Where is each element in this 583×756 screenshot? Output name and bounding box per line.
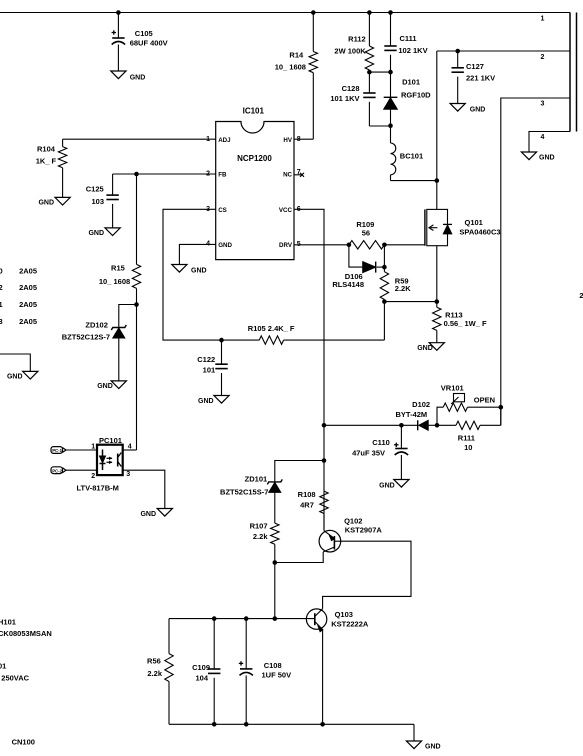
resistor R56 [147, 619, 173, 725]
svg-text:FB: FB [218, 172, 227, 179]
inductor BC101 [391, 126, 437, 181]
svg-text:VR101: VR101 [441, 384, 464, 393]
ground IC101 [172, 265, 207, 275]
wire gate [384, 244, 425, 246]
svg-text:10_ 1608: 10_ 1608 [99, 277, 130, 286]
svg-text:KST2907A: KST2907A [345, 526, 383, 535]
svg-text:C109: C109 [192, 663, 210, 672]
svg-text:GND: GND [198, 398, 214, 405]
IC101 pin name ADJ [218, 137, 231, 144]
junction R109 left [347, 243, 352, 248]
svg-text:3: 3 [541, 101, 545, 108]
svg-text:R105 2.4K_ F: R105 2.4K_ F [248, 324, 295, 333]
svg-text:ADJ: ADJ [218, 137, 231, 144]
svg-text:4R7: 4R7 [300, 500, 314, 509]
transformer pin 4 label [541, 134, 545, 141]
junction D101/BC101 [388, 123, 393, 128]
capacitor C128 [330, 72, 390, 126]
svg-text:GND: GND [140, 511, 156, 518]
svg-text:IC101: IC101 [243, 107, 265, 116]
variable resistor VR101 [437, 384, 501, 426]
svg-text:C111: C111 [400, 34, 417, 43]
svg-text:Q101: Q101 [465, 218, 483, 227]
svg-text:221 1KV: 221 1KV [466, 74, 495, 83]
junction C108 bottom [244, 722, 249, 727]
wire PC101 pin 4 [123, 449, 137, 451]
svg-text:47uF 35V: 47uF 35V [352, 449, 385, 458]
svg-text:Q102: Q102 [344, 517, 362, 526]
svg-text:R104: R104 [37, 145, 56, 154]
resistor R104 [36, 139, 67, 197]
svg-text:104: 104 [195, 674, 208, 683]
resistor R107 [250, 522, 279, 563]
diode D102 [396, 400, 437, 430]
IC101 pin name VCC [279, 207, 293, 214]
svg-text:ZD102: ZD102 [85, 320, 108, 329]
svg-text:C127: C127 [466, 62, 484, 71]
junction R15/ZD102 [134, 302, 139, 307]
svg-text:ZD101: ZD101 [245, 475, 268, 484]
net label row 2 [0, 283, 37, 292]
PC101 pin 4 number [128, 444, 132, 451]
svg-text:HV: HV [283, 137, 292, 144]
svg-text:NCP1200: NCP1200 [237, 154, 272, 163]
IC101 pin 1 number [206, 136, 210, 143]
junction Q103 emitter/gnd rail [320, 722, 325, 727]
wire ZD101 link [275, 461, 324, 482]
svg-text:8: 8 [297, 136, 301, 143]
junction VCC/ZD101 link [322, 458, 327, 463]
transformer T primary core bars [570, 13, 577, 132]
PC101 pin 3 number [126, 471, 130, 478]
wire transformer pin 3 [501, 98, 570, 425]
ground ZD102 [97, 381, 126, 390]
svg-text:GND: GND [7, 374, 23, 381]
wire bottom gnd rail [169, 724, 414, 741]
svg-text:C122: C122 [197, 355, 215, 364]
resistor R108 [298, 490, 329, 531]
wire FB riser [136, 174, 138, 264]
ground bottom rail [406, 741, 440, 751]
optocoupler PC101 LTV-817B-M [77, 436, 123, 493]
PC101 pin 1 number [91, 444, 95, 451]
junction VR101/pin3 riser [499, 405, 504, 410]
wire Q103 emitter [322, 630, 324, 725]
wire R107 to base rail [274, 563, 276, 619]
junction R59/sense [382, 299, 387, 304]
svg-text:R14: R14 [289, 51, 304, 60]
wire DRV pin 5 [294, 244, 349, 246]
label CN100 [12, 738, 35, 747]
svg-text:DRV: DRV [279, 242, 293, 249]
wire transformer pin 2 [437, 50, 570, 52]
svg-text:GND: GND [379, 483, 395, 490]
IC101 pin 2 number [206, 171, 210, 178]
wire R15 to PC101 pin 4 [136, 305, 138, 451]
ground C122 [198, 396, 229, 406]
junction source/R113 [435, 299, 440, 304]
ground PC101 pin 3 [140, 509, 172, 519]
svg-text:PC-2: PC-2 [52, 468, 62, 473]
junction R112/C128 [367, 70, 372, 75]
net label 2 right edge [579, 291, 583, 300]
resistor R113 [433, 307, 487, 343]
wire Q102 base to Q103 collector [323, 541, 411, 609]
svg-text:GND: GND [38, 200, 54, 207]
svg-text:C105: C105 [135, 29, 153, 38]
svg-text:GND: GND [191, 268, 207, 275]
junction VCC/D102 row [322, 423, 327, 428]
label 01 [0, 662, 6, 671]
resistor R59 [380, 267, 411, 302]
wire top HV bus [0, 12, 570, 14]
IC101 pin 3 number [206, 206, 210, 213]
svg-text:C108: C108 [264, 661, 282, 670]
IC101 pin name FB [218, 172, 227, 179]
ground C125 [88, 228, 120, 237]
svg-text:H101: H101 [0, 618, 16, 627]
junction C110 tap [399, 423, 404, 428]
IC101 pin 7 number [297, 169, 301, 176]
op-amp U IC101 NCP1200 body [216, 107, 294, 260]
svg-text:56: 56 [362, 229, 370, 238]
junction R107/Q102 collector [273, 560, 278, 565]
svg-text:CS: CS [218, 207, 227, 214]
svg-text:R56: R56 [147, 657, 161, 666]
svg-text:2.2k: 2.2k [253, 532, 268, 541]
capacitor C111 [384, 13, 427, 73]
net flag PC-1 [51, 447, 97, 454]
junction R112 tap [367, 10, 372, 15]
capacitor C109 [192, 619, 220, 725]
svg-text:2: 2 [91, 473, 95, 480]
junction R109 right [382, 243, 387, 248]
svg-text:GND: GND [470, 107, 486, 114]
transistor Q101 SPA0460C3 [425, 209, 501, 245]
junction C108 top [244, 616, 249, 621]
capacitor C122 [197, 340, 227, 395]
junction C109 top [212, 616, 217, 621]
svg-text:BC101: BC101 [400, 152, 423, 161]
diode D101 [384, 72, 431, 126]
svg-text:D102: D102 [412, 400, 430, 409]
svg-text:GND: GND [425, 744, 441, 751]
svg-text:R15: R15 [111, 264, 125, 273]
label H101 [0, 618, 16, 627]
svg-text:2A05: 2A05 [19, 266, 37, 275]
resistor R105 [248, 324, 385, 344]
svg-text:102 1KV: 102 1KV [398, 46, 427, 55]
junction D102/R111/VR101 [435, 423, 440, 428]
svg-text:R111: R111 [458, 434, 475, 443]
capacitor C110 [352, 425, 408, 479]
ground left stub [7, 371, 38, 380]
PC101 pin 2 number [91, 473, 95, 480]
net flag PC-2 [51, 467, 97, 474]
ground transformer pin 4 [521, 152, 554, 162]
svg-text:GND: GND [417, 345, 433, 352]
svg-text:4: 4 [541, 134, 545, 141]
svg-text:3: 3 [0, 317, 3, 326]
svg-text:CN100: CN100 [12, 738, 35, 747]
IC101 pin 4 number [206, 241, 210, 248]
wire base rail [169, 618, 315, 620]
ground C110 [379, 480, 409, 490]
wire GND pin 4 [179, 244, 215, 264]
svg-text:R108: R108 [298, 490, 316, 499]
transformer pin 1 label [541, 16, 545, 23]
svg-text:01: 01 [0, 662, 6, 671]
svg-text:1K_ F: 1K_ F [36, 157, 57, 166]
svg-text:C110: C110 [372, 438, 390, 447]
junction C127 tap [455, 49, 460, 54]
wire Q101 source [436, 246, 438, 308]
svg-text:GND: GND [97, 383, 113, 390]
wire FB pin 2 [113, 173, 216, 175]
svg-text:10: 10 [464, 443, 472, 452]
svg-text:2.2K: 2.2K [395, 284, 411, 293]
svg-text:4: 4 [128, 444, 132, 451]
zener diode ZD101 [220, 475, 282, 524]
svg-text:2: 2 [579, 291, 583, 300]
svg-text:3: 3 [126, 471, 130, 478]
svg-text:Q103: Q103 [335, 610, 353, 619]
svg-text:VCC: VCC [279, 207, 293, 214]
svg-text:101: 101 [203, 365, 216, 374]
zener diode ZD102 [62, 305, 137, 381]
svg-text:2W 100K: 2W 100K [334, 47, 366, 56]
junction C122 tap [219, 338, 224, 343]
resistor R112 [334, 13, 373, 73]
capacitor C125 [86, 174, 119, 228]
wire PC101 pin 3 [123, 470, 165, 508]
svg-text:250VAC: 250VAC [1, 674, 29, 683]
svg-text:1UF 50V: 1UF 50V [262, 671, 292, 680]
junction R14 tap [311, 10, 316, 15]
ground C105 [111, 71, 145, 82]
resistor R15 [99, 264, 141, 305]
IC101 pin name HV [283, 137, 292, 144]
svg-text:PC101: PC101 [99, 436, 122, 445]
svg-text:101 1KV: 101 1KV [330, 94, 359, 103]
svg-text:BZT52C12S-7: BZT52C12S-7 [62, 333, 110, 342]
svg-text:BYT-42M: BYT-42M [396, 410, 428, 419]
svg-text:2A05: 2A05 [19, 283, 37, 292]
svg-text:GND: GND [539, 155, 555, 162]
svg-text:GND: GND [218, 242, 232, 249]
resistor R14 [275, 13, 318, 140]
svg-text:RLS4148: RLS4148 [332, 280, 364, 289]
wire VCC to D102 row [324, 424, 418, 426]
junction D106/R59 [382, 265, 387, 270]
svg-text:2: 2 [541, 54, 545, 61]
svg-text:C128: C128 [342, 84, 360, 93]
svg-text:1: 1 [541, 16, 545, 23]
wire VCC pin 6 [294, 209, 324, 530]
svg-text:KST2222A: KST2222A [331, 620, 369, 629]
svg-text:R107: R107 [250, 522, 268, 531]
net label row 4 [0, 317, 37, 326]
ground C127 [450, 104, 485, 114]
svg-text:D101: D101 [402, 78, 420, 87]
wire transformer pin 4 [529, 132, 570, 153]
wire ADJ pin 1 [63, 138, 216, 140]
ground R113 [417, 343, 444, 352]
wire left gnd stub [0, 354, 30, 371]
svg-text:OPEN: OPEN [474, 396, 495, 405]
svg-text:RGF10D: RGF10D [401, 91, 431, 100]
svg-text:0: 0 [0, 266, 3, 275]
svg-text:LTV-817B-M: LTV-817B-M [77, 484, 119, 493]
junction R107 rail [273, 616, 278, 621]
transistor Q103 KST2222A [306, 609, 368, 632]
ground R104 [38, 197, 70, 206]
svg-text:R112: R112 [348, 35, 366, 44]
svg-text:SPA0460C3: SPA0460C3 [459, 228, 500, 237]
svg-text:2: 2 [0, 283, 3, 292]
svg-text:2.2k: 2.2k [147, 669, 162, 678]
svg-text:1: 1 [0, 300, 3, 309]
svg-text:2A05: 2A05 [19, 300, 37, 309]
wire R105 to R59 [383, 302, 385, 341]
wire Q102 collector [275, 552, 323, 563]
junction FB/R15 [134, 172, 139, 177]
transformer pin 3 label [541, 101, 545, 108]
IC101 pin 5 number [297, 241, 301, 248]
transformer pin 2 label [541, 54, 545, 61]
IC101 pin 8 number [297, 136, 301, 143]
net label row 3 [0, 300, 37, 309]
transistor Q102 KST2907A [319, 517, 382, 553]
IC101 pin name CS [218, 207, 227, 214]
wire CS pin 3 [163, 209, 259, 340]
resistor R109 [349, 220, 385, 249]
net label row 1 [0, 266, 37, 275]
IC101 pin name DRV [279, 242, 293, 249]
svg-text:PC-1: PC-1 [52, 448, 62, 453]
wire drain riser [436, 51, 438, 209]
junction C111/D101 [388, 70, 393, 75]
junction C111 tap [388, 10, 393, 15]
wire R112-C111 tie [369, 71, 390, 73]
IC101 pin name GND [218, 242, 232, 249]
diode D106 [332, 245, 384, 289]
junction C109 bottom [212, 722, 217, 727]
label 250VAC [1, 674, 29, 683]
svg-text:GND: GND [130, 75, 146, 82]
wire sense link [384, 301, 436, 303]
svg-text:NC: NC [283, 172, 292, 179]
svg-text:BZT52C15S-7: BZT52C15S-7 [220, 488, 268, 497]
IC101 pin 6 number [297, 206, 301, 213]
junction C105 tap [116, 10, 121, 15]
svg-text:103: 103 [91, 197, 104, 206]
svg-text:68UF 400V: 68UF 400V [130, 39, 168, 48]
svg-text:2A05: 2A05 [19, 317, 37, 326]
svg-text:0.56_ 1W_ F: 0.56_ 1W_ F [444, 319, 487, 328]
capacitor C105 [112, 13, 168, 72]
svg-text:GND: GND [88, 230, 104, 237]
IC101 pin 7 NC stub [294, 173, 304, 177]
svg-text:CK08053MSAN: CK08053MSAN [0, 629, 52, 638]
resistor R111 [437, 407, 501, 452]
IC101 pin name NC [283, 172, 292, 179]
svg-text:10_ 1608: 10_ 1608 [275, 63, 306, 72]
junction BC101/drain [435, 178, 440, 183]
label CK08053MSAN [0, 629, 52, 638]
capacitor C108 [239, 619, 291, 725]
wire HV pin 8 [294, 138, 313, 140]
capacitor C127 [452, 51, 496, 104]
svg-text:C125: C125 [86, 185, 104, 194]
